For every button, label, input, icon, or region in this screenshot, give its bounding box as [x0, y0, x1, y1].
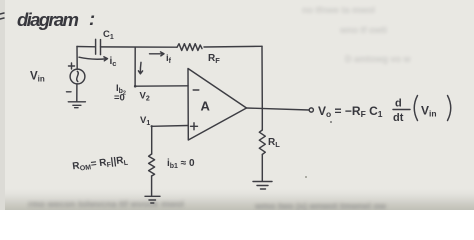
wire RL to ground	[261, 155, 263, 182]
label Rom = RF||RL	[72, 155, 130, 174]
current arrow if	[150, 52, 172, 65]
formula Vo = -RF C1 d/dt (Vin)	[318, 96, 451, 125]
wire V1 down to Rom	[151, 126, 153, 154]
node V1 dot	[151, 125, 153, 127]
wire output node down to RL	[261, 109, 263, 130]
ground (RL)	[253, 182, 272, 190]
svg-text:no tfnwe ta mwol: no tfnwe ta mwol	[302, 5, 375, 15]
wire Vin to top	[76, 47, 78, 70]
resistor Rom	[149, 154, 155, 176]
svg-text:rmo wecon tolwvcna ttf wvook m: rmo wecon tolwvcna ttf wvook mwol	[28, 199, 184, 209]
svg-text:A: A	[201, 99, 211, 114]
wire Rom to ground	[151, 176, 153, 196]
svg-text:D amtowg vo w: D amtowg vo w	[345, 54, 412, 64]
svg-text:wno tf owti: wno tf owti	[339, 25, 387, 35]
op-amp minus sign	[193, 89, 199, 91]
capacitor C1	[96, 39, 101, 54]
wire feedback down to output node	[261, 46, 263, 109]
svg-text:wmo two (s) wnwot tmwnel ow: wmo two (s) wnwot tmwnel ow	[254, 201, 387, 210]
current arrow ic	[79, 56, 116, 68]
source Vin	[67, 63, 85, 92]
wire junction down to V2	[134, 47, 136, 86]
svg-text:d: d	[395, 98, 402, 110]
wire RF to feedback corner	[204, 45, 262, 48]
node junction dot	[134, 85, 137, 88]
ground (Rom)	[145, 196, 160, 203]
label C1	[103, 29, 114, 41]
bleed-through blurred text (decorative)	[302, 5, 412, 64]
title text "diagram :"	[0, 8, 95, 30]
wire V1 node to non-inverting input	[152, 125, 188, 128]
resistor RL	[259, 130, 265, 154]
source Vin label	[30, 71, 45, 84]
wire Vin to capacitor	[77, 46, 95, 48]
svg-text:=0: =0	[114, 93, 125, 104]
wire V2 to inverting input	[135, 85, 188, 87]
ground (Vin)	[68, 84, 85, 108]
op-amp plus sign	[191, 123, 198, 130]
output wire	[247, 108, 310, 110]
label Ib2 = 0	[114, 83, 126, 104]
wire capacitor to junction to RF	[101, 46, 178, 48]
svg-text::: :	[89, 8, 95, 29]
svg-text:diagram: diagram	[17, 9, 79, 30]
svg-text:dt: dt	[393, 112, 404, 124]
op-amp U1 triangle	[188, 69, 247, 141]
current arrow down at junction	[138, 62, 142, 74]
resistor RF	[177, 44, 202, 51]
output terminal	[309, 108, 313, 112]
